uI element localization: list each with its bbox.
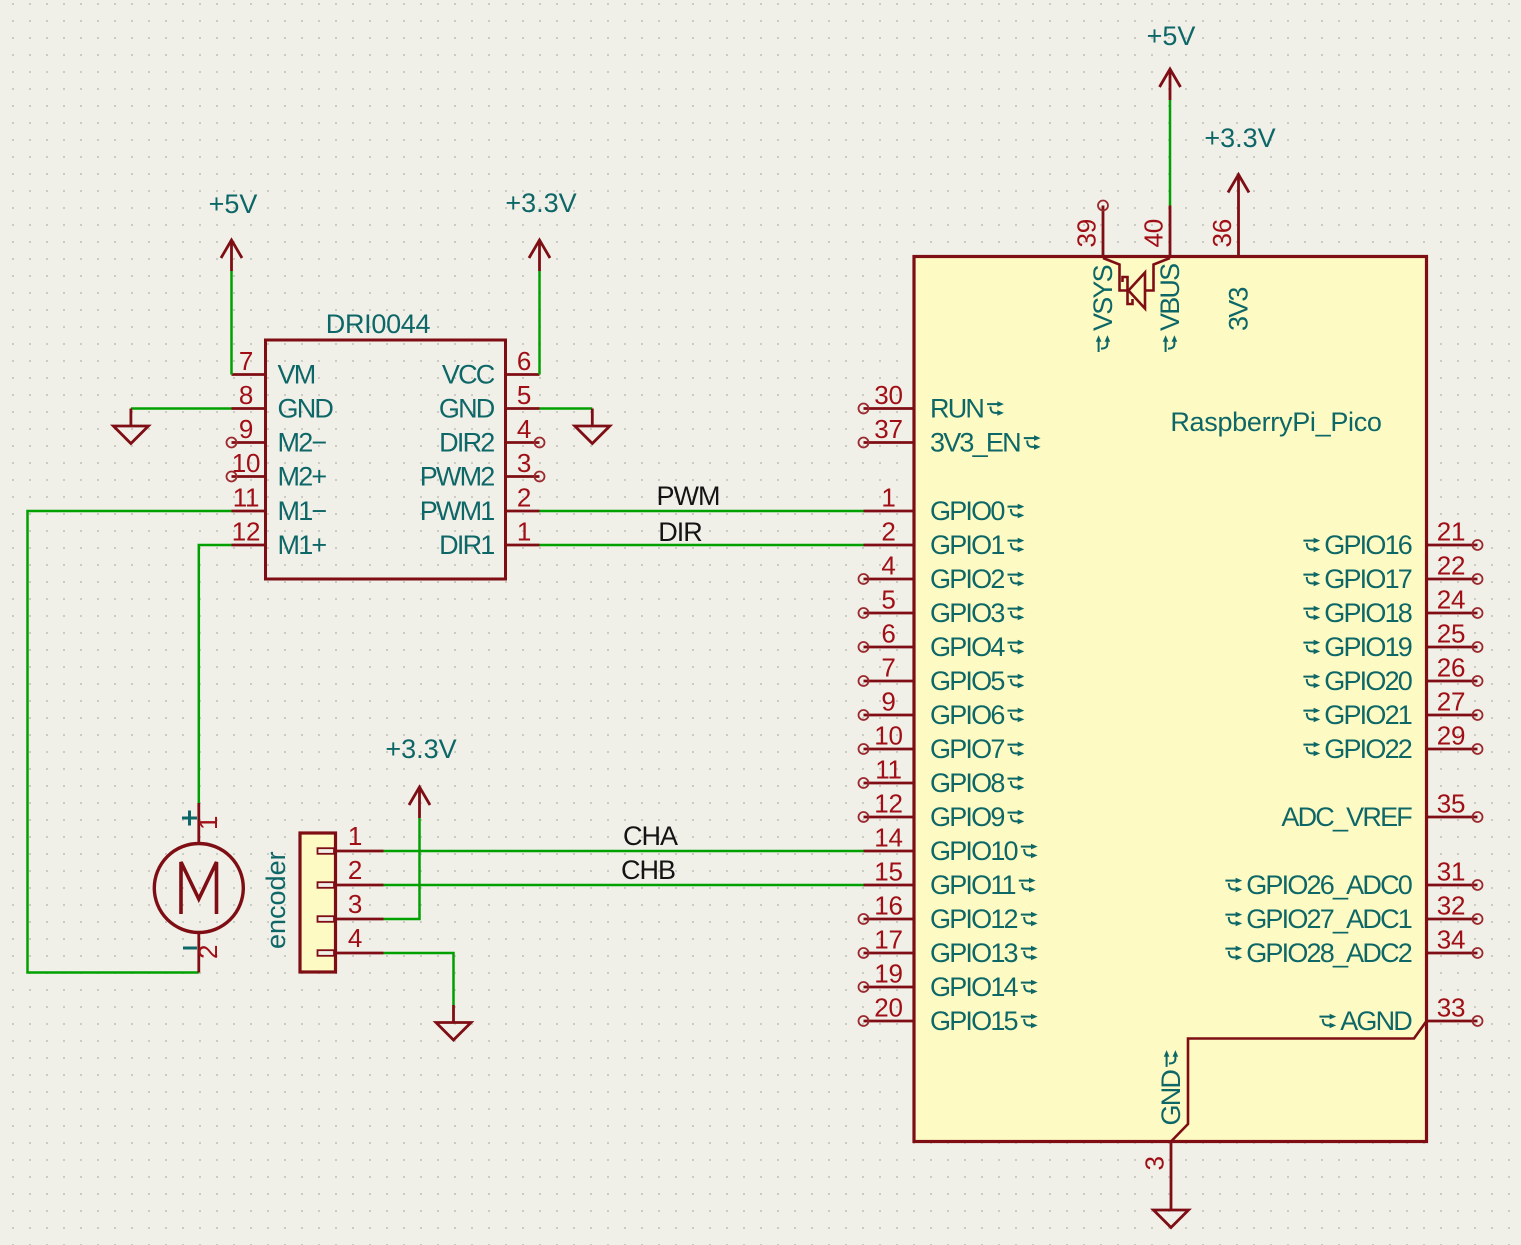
pin 32 GPIO27_ADC1 (Pico right) (1427, 918, 1478, 921)
svg-text:GPIO26_ADC0: GPIO26_ADC0 (1246, 870, 1412, 900)
svg-text:9: 9 (239, 414, 253, 444)
svg-text:GPIO15: GPIO15 (930, 1006, 1018, 1036)
svg-text:22: 22 (1437, 551, 1466, 581)
internal Schottky diode VBUS to VSYS (1103, 258, 1170, 309)
svg-text:PWM2: PWM2 (420, 462, 495, 492)
svg-text:1: 1 (881, 483, 895, 513)
svg-text:DRI0044: DRI0044 (326, 309, 431, 339)
svg-text:6: 6 (881, 619, 895, 649)
svg-text:12: 12 (232, 517, 261, 547)
svg-text:M2+: M2+ (278, 462, 327, 492)
unconnected marker pin 25 (1473, 642, 1483, 652)
IC RaspberryPi_Pico body (914, 257, 1427, 1142)
wire M1+ to motor pin 1 (199, 545, 232, 803)
svg-text:27: 27 (1437, 687, 1466, 717)
svg-text:GPIO3: GPIO3 (930, 598, 1004, 628)
pin 4 GPIO2 (Pico left) (864, 578, 915, 581)
svg-text:4: 4 (881, 551, 895, 581)
pin 4 DIR2 (DRI0044 right) (506, 441, 540, 444)
svg-text:VM: VM (278, 360, 315, 390)
svg-text:21: 21 (1437, 517, 1466, 547)
svg-text:+3.3V: +3.3V (1204, 123, 1275, 153)
svg-text:M1−: M1− (278, 496, 327, 526)
unconnected marker pin 29 (1473, 744, 1483, 754)
ground right of DRI0044 (575, 409, 610, 444)
wire CHB net (384, 884, 864, 887)
power +3.3V (above encoder) (409, 787, 430, 818)
unconnected marker pin 17 (859, 948, 869, 958)
pin 25 GPIO19 (Pico right) (1427, 646, 1478, 649)
svg-text:GPIO5: GPIO5 (930, 666, 1004, 696)
svg-text:GPIO9: GPIO9 (930, 802, 1004, 832)
svg-text:+3.3V: +3.3V (385, 734, 456, 764)
svg-text:GPIO13: GPIO13 (930, 938, 1018, 968)
svg-text:39: 39 (1072, 219, 1102, 248)
svg-text:32: 32 (1437, 891, 1466, 921)
unconnected marker pin 9 (859, 710, 869, 720)
unconnected marker pin 33 (1473, 1016, 1483, 1026)
wire VM to +5V (230, 271, 233, 375)
unconnected marker pin 16 (859, 914, 869, 924)
pin 17 GPIO13 (Pico left) (864, 952, 915, 955)
pin 19 GPIO14 (Pico left) (864, 986, 915, 989)
svg-text:31: 31 (1437, 857, 1466, 887)
motor pin 1 (+) (197, 803, 200, 844)
unconnected marker pin 3 (535, 472, 545, 482)
pin 12 GPIO9 (Pico left) (864, 816, 915, 819)
pin 26 GPIO20 (Pico right) (1427, 680, 1478, 683)
svg-text:11: 11 (233, 483, 260, 513)
svg-text:RaspberryPi_Pico: RaspberryPi_Pico (1170, 407, 1381, 437)
pin 16 GPIO12 (Pico left) (864, 918, 915, 921)
svg-text:encoder: encoder (261, 851, 291, 949)
motor plus mark (182, 811, 197, 826)
svg-text:GPIO21: GPIO21 (1324, 700, 1412, 730)
svg-text:37: 37 (874, 414, 903, 444)
svg-text:CHB: CHB (621, 855, 675, 885)
unconnected marker pin 35 (1473, 812, 1483, 822)
svg-text:GPIO18: GPIO18 (1324, 598, 1412, 628)
unconnected marker pin 30 (859, 404, 869, 414)
svg-text:2: 2 (517, 483, 531, 513)
unconnected marker pin 22 (1473, 574, 1483, 584)
wire VCC to +3.3V (538, 271, 541, 375)
pin 2 PWM1 (DRI0044 right) (506, 510, 540, 513)
svg-text:16: 16 (874, 891, 903, 921)
pin 15 GPIO11 (Pico left) (864, 884, 915, 887)
svg-text:GPIO7: GPIO7 (930, 734, 1004, 764)
svg-text:8: 8 (239, 380, 253, 410)
svg-text:GPIO2: GPIO2 (930, 564, 1004, 594)
unconnected marker pin 20 (859, 1016, 869, 1026)
pin 37 3V3_EN (Pico left) (864, 441, 915, 444)
unconnected marker pin 26 (1473, 676, 1483, 686)
svg-text:19: 19 (874, 959, 903, 989)
svg-text:GPIO0: GPIO0 (930, 496, 1004, 526)
pin 20 GPIO15 (Pico left) (864, 1020, 915, 1023)
svg-text:+3.3V: +3.3V (505, 188, 576, 218)
pin 5 GPIO3 (Pico left) (864, 612, 915, 615)
svg-text:25: 25 (1437, 619, 1466, 649)
svg-text:+5V: +5V (209, 189, 258, 219)
pin 29 GPIO22 (Pico right) (1427, 748, 1478, 751)
IC U? DRI0044 motor driver body (266, 340, 506, 579)
pin 35 ADC_VREF (Pico right) (1427, 816, 1478, 819)
unconnected marker pin 12 (859, 812, 869, 822)
svg-text:GPIO6: GPIO6 (930, 700, 1004, 730)
svg-text:GPIO20: GPIO20 (1324, 666, 1412, 696)
svg-text:GPIO12: GPIO12 (930, 904, 1018, 934)
unconnected marker pin 4 (859, 574, 869, 584)
svg-text:GND: GND (439, 394, 495, 424)
svg-text:26: 26 (1437, 653, 1466, 683)
svg-text:34: 34 (1437, 925, 1466, 955)
unconnected marker pin 31 (1473, 880, 1483, 890)
svg-text:DIR: DIR (658, 517, 702, 547)
unconnected marker pin 19 (859, 982, 869, 992)
unconnected marker pin 4 (535, 438, 545, 448)
unconnected marker pin 6 (859, 642, 869, 652)
power +5V (above DRI0044 VM) (221, 240, 242, 271)
wire M1- to motor pin 2 (28, 511, 232, 973)
svg-text:GPIO8: GPIO8 (930, 768, 1004, 798)
pin 3 GND (Pico bottom) (1170, 1142, 1173, 1193)
pin 10 M2+ (DRI0044 left) (232, 475, 266, 478)
svg-text:9: 9 (881, 687, 895, 717)
pin 14 GPIO10 (Pico left) (864, 850, 915, 853)
svg-text:VSYS: VSYS (1088, 265, 1118, 331)
wire DRI0044 GND left (131, 407, 232, 410)
pin 10 GPIO7 (Pico left) (864, 748, 915, 751)
pin 12 M1+ (DRI0044 left) (232, 544, 266, 547)
unconnected marker pin 39 (1098, 201, 1108, 211)
svg-text:20: 20 (874, 993, 903, 1023)
svg-text:GPIO17: GPIO17 (1324, 564, 1412, 594)
svg-text:4: 4 (517, 414, 531, 444)
svg-text:3V3_EN: 3V3_EN (930, 428, 1020, 458)
svg-text:5: 5 (881, 585, 895, 615)
svg-text:GPIO1: GPIO1 (930, 530, 1004, 560)
svg-text:M2−: M2− (278, 428, 327, 458)
svg-text:GND: GND (1156, 1070, 1186, 1126)
svg-text:2: 2 (193, 945, 223, 959)
wire VBUS to +5V (1169, 100, 1172, 206)
power +5V (above Pico VBUS) (1160, 69, 1181, 100)
encoder pin 3 (318, 916, 384, 922)
svg-text:GPIO28_ADC2: GPIO28_ADC2 (1246, 938, 1412, 968)
pin 39 VSYS (Pico top) (1102, 206, 1105, 257)
svg-text:24: 24 (1437, 585, 1466, 615)
unconnected marker pin 10 (227, 472, 237, 482)
pin 9 GPIO6 (Pico left) (864, 714, 915, 717)
svg-text:36: 36 (1207, 219, 1237, 248)
svg-text:3: 3 (1140, 1156, 1170, 1170)
svg-text:2: 2 (881, 517, 895, 547)
svg-text:10: 10 (874, 721, 903, 751)
encoder pin 1 (318, 848, 384, 854)
wire CHA net (384, 850, 864, 853)
svg-text:+5V: +5V (1147, 21, 1196, 51)
svg-text:GPIO16: GPIO16 (1324, 530, 1412, 560)
svg-text:15: 15 (874, 857, 903, 887)
svg-text:17: 17 (874, 925, 903, 955)
pin 5 GND (DRI0044 right) (506, 407, 540, 410)
pin 22 GPIO17 (Pico right) (1427, 578, 1478, 581)
svg-text:GND: GND (278, 394, 334, 424)
unconnected marker pin 37 (859, 438, 869, 448)
motor letter M (181, 862, 217, 914)
pin 6 VCC (DRI0044 right) (506, 373, 540, 376)
svg-text:7: 7 (239, 346, 253, 376)
svg-text:30: 30 (874, 380, 903, 410)
pin 36 3V3 (Pico top) (1237, 206, 1240, 257)
wire encoder pin4 to ground (384, 953, 454, 1005)
svg-text:RUN: RUN (930, 394, 983, 424)
pin 27 GPIO21 (Pico right) (1427, 714, 1478, 717)
ground below Pico GND (1154, 1193, 1189, 1228)
pin 40 VBUS (Pico top) (1169, 206, 1172, 257)
unconnected marker pin 32 (1473, 914, 1483, 924)
svg-text:GPIO4: GPIO4 (930, 632, 1005, 662)
unconnected marker pin 11 (859, 778, 869, 788)
svg-text:40: 40 (1139, 219, 1169, 248)
svg-text:5: 5 (517, 380, 531, 410)
svg-text:PWM1: PWM1 (420, 496, 495, 526)
svg-text:DIR2: DIR2 (439, 428, 494, 458)
svg-text:1: 1 (193, 816, 223, 830)
power +3.3V (at Pico 3V3 pin) (1228, 175, 1249, 206)
pin 7 GPIO5 (Pico left) (864, 680, 915, 683)
wire PWM net (540, 510, 864, 513)
wire DRI0044 GND right (540, 407, 593, 410)
svg-text:VBUS: VBUS (1155, 264, 1185, 331)
ground below encoder (436, 1005, 471, 1040)
pin 24 GPIO18 (Pico right) (1427, 612, 1478, 615)
svg-text:GPIO10: GPIO10 (930, 836, 1018, 866)
svg-text:AGND: AGND (1340, 1006, 1412, 1036)
svg-text:1: 1 (348, 821, 362, 851)
unconnected marker pin 9 (227, 438, 237, 448)
svg-text:33: 33 (1437, 993, 1466, 1023)
svg-text:M1+: M1+ (278, 530, 327, 560)
svg-text:VCC: VCC (442, 360, 495, 390)
pin 1 GPIO0 (Pico left) (864, 510, 915, 513)
svg-text:1: 1 (517, 517, 531, 547)
internal AGND to GND link (1171, 1021, 1427, 1142)
pin 7 VM (DRI0044 left) (232, 373, 266, 376)
motor minus mark (183, 947, 197, 950)
pin 31 GPIO26_ADC0 (Pico right) (1427, 884, 1478, 887)
unconnected marker pin 34 (1473, 948, 1483, 958)
svg-text:GPIO19: GPIO19 (1324, 632, 1412, 662)
svg-text:PWM: PWM (657, 481, 720, 511)
svg-text:29: 29 (1437, 721, 1466, 751)
power +3.3V (above DRI0044 VCC) (529, 240, 550, 271)
svg-text:GPIO22: GPIO22 (1324, 734, 1412, 764)
pin 3 PWM2 (DRI0044 right) (506, 475, 540, 478)
svg-text:6: 6 (517, 346, 531, 376)
svg-text:GPIO27_ADC1: GPIO27_ADC1 (1246, 904, 1412, 934)
pin 33 AGND (Pico right) (1427, 1020, 1478, 1023)
connector J? encoder body (300, 833, 336, 972)
pin 21 GPIO16 (Pico right) (1427, 544, 1478, 547)
pin 11 M1- (DRI0044 left) (232, 510, 266, 513)
svg-text:GPIO11: GPIO11 (930, 870, 1016, 900)
pin 9 M2- (DRI0044 left) (232, 441, 266, 444)
pin 6 GPIO4 (Pico left) (864, 646, 915, 649)
unconnected marker pin 7 (859, 676, 869, 686)
svg-text:3: 3 (348, 889, 362, 919)
ground left of DRI0044 (113, 409, 148, 444)
pin 8 GND (DRI0044 left) (232, 407, 266, 410)
svg-text:ADC_VREF: ADC_VREF (1281, 802, 1412, 832)
unconnected marker pin 5 (859, 608, 869, 618)
unconnected marker pin 21 (1473, 540, 1483, 550)
pin 34 GPIO28_ADC2 (Pico right) (1427, 952, 1478, 955)
motor pin 2 (-) (197, 933, 200, 973)
svg-text:CHA: CHA (623, 821, 678, 851)
pin 2 GPIO1 (Pico left) (864, 544, 915, 547)
pin 30 RUN (Pico left) (864, 407, 915, 410)
wire DIR net (540, 544, 864, 547)
motor M1 body (circle) (154, 844, 243, 933)
pin 1 DIR1 (DRI0044 right) (506, 544, 540, 547)
svg-text:3V3: 3V3 (1224, 288, 1254, 331)
svg-text:GPIO14: GPIO14 (930, 972, 1019, 1002)
svg-text:7: 7 (881, 653, 895, 683)
svg-text:14: 14 (874, 823, 903, 853)
unconnected marker pin 10 (859, 744, 869, 754)
svg-text:35: 35 (1437, 789, 1466, 819)
encoder pin 4 (318, 950, 384, 956)
wire encoder pin3 to +3.3V (384, 818, 420, 919)
svg-text:2: 2 (348, 855, 362, 885)
unconnected marker pin 27 (1473, 710, 1483, 720)
svg-text:12: 12 (874, 789, 903, 819)
unconnected marker pin 24 (1473, 608, 1483, 618)
svg-text:3: 3 (517, 448, 531, 478)
svg-text:4: 4 (348, 923, 362, 953)
svg-text:11: 11 (875, 755, 902, 785)
pin 11 GPIO8 (Pico left) (864, 782, 915, 785)
encoder pin 2 (318, 882, 384, 888)
svg-text:DIR1: DIR1 (439, 530, 494, 560)
